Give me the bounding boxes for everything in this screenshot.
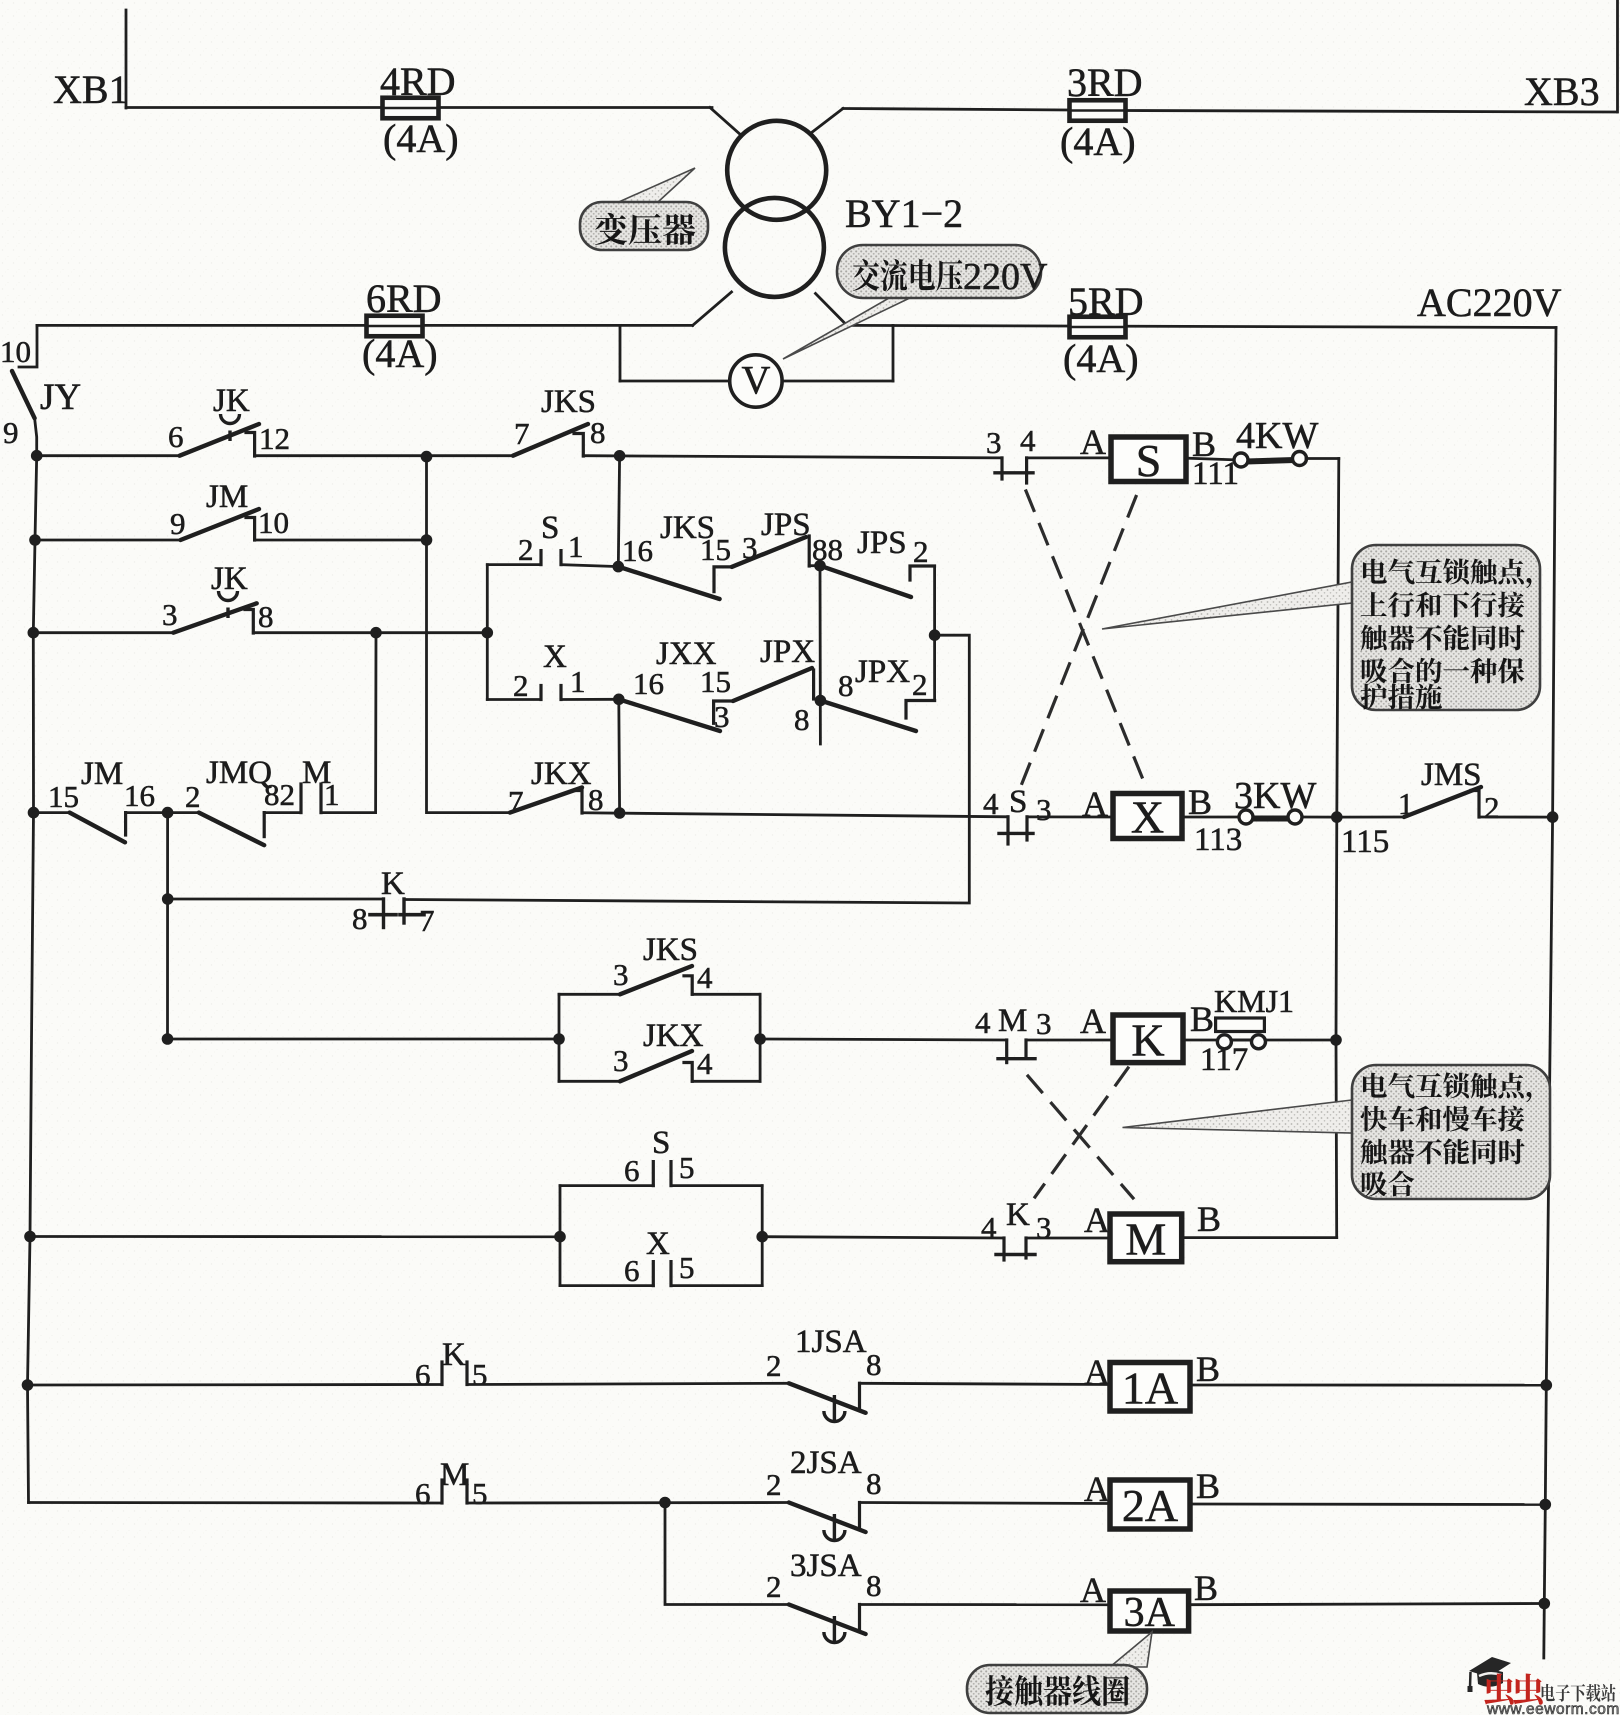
- switch JK (6-12) blade: [180, 424, 259, 456]
- wire: top-right stub at XB3: [1616, 0, 1619, 112]
- svg-text:1: 1: [568, 529, 584, 564]
- contact JK fixed tick: [246, 433, 255, 457]
- contact K (8-7) bridging plates: [370, 899, 424, 928]
- logo graduation cap: [1468, 1657, 1512, 1692]
- interlock dashed line S-to-X (down-right): [1026, 491, 1142, 777]
- contact M (6-5) ticks row 2A: [440, 1480, 443, 1503]
- node: row1 / S-branch drop junction: [614, 450, 626, 462]
- svg-text:3JSA: 3JSA: [790, 1548, 862, 1584]
- svg-text:3A: 3A: [1124, 1590, 1176, 1636]
- fuse 5RD: [1070, 317, 1126, 338]
- coil 3A: [1110, 1590, 1189, 1636]
- svg-text:82: 82: [264, 777, 295, 812]
- wire: 2JSA to coil 2A: [860, 1503, 1111, 1504]
- wire: top line transformer to XB3: [843, 109, 1069, 111]
- logo text 电子下载站: [1542, 1684, 1616, 1702]
- svg-text:6: 6: [624, 1253, 640, 1288]
- contact X (2-1) ticks: [539, 686, 542, 700]
- wire: S branch to JKS: [561, 565, 618, 567]
- wire: S 6-5 branch right: [671, 1184, 762, 1187]
- svg-text:2A: 2A: [1122, 1480, 1178, 1531]
- contact S (6-5) ticks: [652, 1162, 655, 1186]
- wire: JKS/JKX block left bracket: [558, 994, 561, 1081]
- node: rail junction row 1: [31, 450, 43, 462]
- contact JMS fixed tick: [1471, 791, 1479, 818]
- limit switch 3KW: [1239, 810, 1302, 824]
- switch JXX (16-15) blade: [619, 699, 720, 731]
- svg-text:K: K: [381, 866, 405, 902]
- svg-text:JKX: JKX: [531, 756, 592, 792]
- svg-text:B: B: [1196, 1466, 1220, 1506]
- svg-text:X: X: [1131, 792, 1164, 843]
- coil 2A: [1110, 1480, 1190, 1531]
- wire: S 6-5 branch left: [560, 1184, 653, 1187]
- logo 虫 first: [1484, 1674, 1513, 1705]
- wire: voltmeter branch left drop: [619, 325, 622, 381]
- svg-text:7: 7: [514, 416, 530, 451]
- contact M (82-1) ticks: [299, 784, 302, 813]
- wire: diagonal into transformer primary left: [710, 108, 742, 137]
- node: right rail / 2A row: [1540, 1499, 1552, 1511]
- svg-text:111: 111: [1192, 456, 1239, 492]
- svg-text:JM: JM: [81, 756, 123, 792]
- svg-text:8: 8: [866, 1466, 882, 1501]
- callout pointer wedge: interlock note 2: [1123, 1100, 1353, 1133]
- callout1 line2 上行和下行接: [1361, 592, 1524, 618]
- svg-text:S: S: [1136, 435, 1162, 486]
- svg-text:6: 6: [415, 1476, 431, 1511]
- wire: JMQ to M contact: [264, 811, 301, 814]
- callout2 line2 快车和慢车接: [1361, 1106, 1525, 1132]
- svg-text:15: 15: [700, 664, 731, 699]
- wire: contact to coil M: [1026, 1237, 1110, 1240]
- contact JKS fixed tick mid: [714, 567, 732, 592]
- switch JM (9-10) blade: [181, 509, 260, 540]
- wire: diagonal from transformer primary right: [811, 109, 843, 134]
- wire: S/X block left bracket: [559, 1186, 562, 1286]
- svg-text:B: B: [1194, 1568, 1218, 1608]
- svg-text:16: 16: [622, 533, 653, 568]
- callout1 line3 触器不能同时: [1361, 624, 1525, 650]
- svg-text:1A: 1A: [1122, 1362, 1178, 1413]
- svg-text:3: 3: [613, 1043, 629, 1078]
- callout text 变压器 (transformer): [595, 213, 695, 245]
- wire: row1 JK to JKS: [255, 454, 513, 457]
- svg-text:1: 1: [570, 664, 586, 699]
- node: rail junction JM row: [28, 807, 40, 819]
- wire: S/X block left bracket: [486, 565, 489, 700]
- node: JM row / vertical-167 junction: [162, 807, 174, 819]
- svg-text:3: 3: [1036, 1006, 1052, 1041]
- svg-text:10: 10: [258, 505, 289, 540]
- wire: JKS block top branch right: [692, 993, 760, 996]
- contact JMQ fixed tick: [263, 813, 266, 837]
- callout pointer wedge: interlock note 1: [1102, 582, 1352, 629]
- node: rail junction 1A row: [22, 1379, 34, 1391]
- svg-text:JPS: JPS: [857, 525, 907, 561]
- switch JMQ (2-82) blade: [199, 813, 264, 846]
- callout box: transformer label 变压器: [580, 202, 708, 250]
- wire: JKX block bottom branch left: [559, 1080, 620, 1083]
- svg-text:KMJ1: KMJ1: [1214, 983, 1294, 1019]
- wire: M contact to 2JSA: [467, 1501, 789, 1504]
- switch JPS blade rising: [732, 537, 806, 567]
- svg-text:X: X: [646, 1226, 670, 1262]
- wire: JKS block top branch left: [559, 993, 620, 996]
- wire: rejoin to K-row drop corner: [404, 635, 969, 903]
- svg-text:4: 4: [981, 1210, 997, 1245]
- switch JY blade: [12, 371, 35, 418]
- node: block right junction: [754, 1033, 766, 1045]
- contact S (2-1) ticks: [539, 551, 542, 565]
- coil K (fast contactor): [1113, 1014, 1183, 1065]
- svg-text:12: 12: [259, 421, 290, 456]
- svg-text:7: 7: [419, 903, 435, 938]
- wire: JKX block bottom branch right: [692, 1080, 760, 1083]
- switch JPS second blade: [820, 566, 911, 597]
- switch JKS (7-8) blade row1: [513, 424, 588, 456]
- svg-text:www.eeworm.com: www.eeworm.com: [1486, 1701, 1620, 1715]
- wire: JPS stub to junction: [809, 564, 820, 567]
- wire: 2A row rail corner to M contact: [29, 1501, 443, 1504]
- wire: coil K to KMJ1: [1183, 1039, 1217, 1042]
- interlock dashed line K-to-M (down-right): [1028, 1076, 1133, 1198]
- svg-text:5: 5: [679, 1250, 695, 1285]
- wire: 1JSA to coil 1A: [860, 1383, 1111, 1384]
- svg-text:(4A): (4A): [1063, 336, 1139, 381]
- wire: JMS to right rail: [1479, 816, 1553, 819]
- wire: voltmeter branch right horizontal: [782, 380, 893, 383]
- switch JPX second blade: [820, 701, 916, 732]
- 3.4: [808, 536, 811, 566]
- svg-text:4: 4: [697, 1046, 713, 1081]
- voltmeter V: [730, 355, 782, 407]
- svg-text:6: 6: [415, 1357, 431, 1392]
- wire: row3 rail to JK: [33, 631, 173, 634]
- svg-text:A: A: [1080, 422, 1106, 462]
- switch JK (3-8) blade row3: [173, 603, 256, 632]
- contact X (6-5) ticks: [652, 1262, 655, 1286]
- wire: junction 115 to JMS: [1337, 816, 1404, 819]
- svg-text:B: B: [1197, 1199, 1221, 1239]
- wire: coil S to 4KW: [1186, 458, 1235, 460]
- node: rail junction row 2: [29, 534, 41, 546]
- svg-text:JKS: JKS: [541, 384, 596, 420]
- wire: link 88 junction down to JPX junction: [819, 566, 822, 744]
- callout pointer wedge: contactor coil note: [1110, 1632, 1152, 1667]
- wire: row1 rail to JK: [37, 454, 180, 457]
- contact 4-K-3 plates: [1002, 1238, 1005, 1260]
- svg-text:(4A): (4A): [1060, 119, 1136, 164]
- svg-text:(4A): (4A): [383, 116, 459, 161]
- mechanical fork of JK row3: [219, 591, 238, 618]
- wire: row3 to S/X block bracket: [253, 631, 487, 634]
- svg-text:M: M: [440, 1457, 469, 1493]
- svg-text:JM: JM: [206, 479, 248, 515]
- svg-text:3: 3: [986, 425, 1002, 460]
- node: S branch / row1 drop: [613, 561, 625, 573]
- contact JKS fixed tick row1: [574, 434, 583, 457]
- svg-text:B: B: [1196, 1349, 1220, 1389]
- switch JKS (16-15) blade mid: [618, 567, 719, 599]
- switch 1JSA blade: [789, 1383, 866, 1413]
- contact JKX fixed tick block: [684, 1063, 692, 1082]
- svg-text:XB3: XB3: [1524, 69, 1600, 114]
- wire: row1 JKS to S-coil contact: [583, 456, 1002, 458]
- svg-text:115: 115: [1341, 824, 1389, 860]
- switch JMS (1-2) blade: [1404, 787, 1481, 817]
- contact 1JSA fixed tick: [858, 1383, 861, 1408]
- node: SX block left junction: [554, 1231, 566, 1243]
- wire: contact 3 to coil X: [1027, 816, 1113, 819]
- svg-text:3KW: 3KW: [1234, 775, 1316, 817]
- node: row2 end junction: [421, 534, 433, 546]
- svg-text:4: 4: [697, 960, 713, 995]
- node: vertical-167 / block row junction: [162, 1033, 174, 1045]
- interlock dashed line M-to-K (down-left): [1035, 1068, 1128, 1197]
- wire: AC220V line left section: [37, 324, 693, 327]
- wire: block to K coil contact: [760, 1039, 1007, 1040]
- wire: top line XB1 to transformer: [126, 106, 712, 109]
- svg-text:8: 8: [794, 702, 810, 737]
- svg-text:2: 2: [766, 1467, 782, 1502]
- callout box: AC voltage 交流电压220V: [837, 245, 1041, 298]
- callout box: interlock note 2: [1352, 1065, 1550, 1199]
- wire: 4KW to right drop: [1306, 457, 1339, 460]
- mechanical fork of JK: [221, 414, 240, 441]
- wire: diagonal from transformer secondary right to AC line: [816, 294, 847, 326]
- svg-text:16: 16: [124, 778, 155, 813]
- contact JPS-2 bracket: [910, 566, 935, 580]
- node: right rail / X row: [1547, 811, 1559, 823]
- contact 2JSA fixed tick: [858, 1503, 861, 1528]
- wire: S/X row rail to block: [30, 1235, 560, 1238]
- svg-text:JKX: JKX: [643, 1018, 704, 1054]
- svg-text:2JSA: 2JSA: [790, 1445, 862, 1481]
- svg-text:9: 9: [3, 415, 19, 450]
- callout2 line3 触器不能同时: [1361, 1138, 1525, 1164]
- svg-text:(4A): (4A): [362, 331, 438, 376]
- svg-text:XB1: XB1: [53, 67, 129, 112]
- node: 2A row / 3A drop junction: [659, 1497, 671, 1509]
- svg-text:8: 8: [866, 1568, 882, 1603]
- svg-text:JK: JK: [213, 383, 250, 419]
- svg-text:JMQ: JMQ: [206, 755, 272, 791]
- svg-text:3: 3: [1036, 792, 1052, 827]
- contact JK fixed tick row3: [245, 610, 253, 634]
- svg-text:5RD: 5RD: [1068, 279, 1144, 324]
- wire: X branch left segment: [487, 698, 541, 701]
- contact 3JSA fixed tick: [858, 1605, 861, 1630]
- node: row3 / S-X bracket junction: [482, 627, 494, 639]
- wire: vertical x=167 JM row to JKS/JKX block row: [166, 813, 169, 1039]
- contact JM fixed tick row813: [124, 813, 127, 835]
- svg-text:S: S: [1009, 784, 1027, 820]
- wire: X 6-5 branch right: [671, 1284, 762, 1287]
- wire: S branch left segment: [487, 563, 541, 566]
- callout1 line1 电气互锁触点: [1363, 558, 1531, 588]
- wire: coil M to vertical bus corner: [1182, 1236, 1337, 1239]
- svg-text:8: 8: [590, 415, 606, 450]
- wire: vertical drop X branch to JKX row: [617, 699, 621, 813]
- wire: top-left entry stub at XB1: [125, 10, 128, 108]
- wire: JM row rail to blade: [34, 811, 70, 814]
- wire: coil 2A to right rail: [1190, 1503, 1545, 1506]
- callout2 line4 吸合: [1362, 1171, 1414, 1197]
- wire: voltmeter branch right rise: [892, 325, 895, 381]
- svg-text:3: 3: [162, 597, 178, 632]
- 3.4: [812, 670, 815, 699]
- svg-text:6: 6: [168, 419, 184, 454]
- wire: 3KW to junction 115: [1302, 816, 1337, 819]
- svg-text:15: 15: [48, 779, 79, 814]
- wire: X branch to JXX: [561, 698, 619, 701]
- callout text 交流电压 (AC voltage): [853, 259, 963, 291]
- node: right rail / 3A row: [1539, 1598, 1551, 1610]
- svg-text:2: 2: [185, 779, 201, 814]
- svg-text:10: 10: [0, 334, 31, 369]
- switch JM (15-16) blade: [70, 813, 125, 843]
- svg-text:3RD: 3RD: [1067, 60, 1143, 105]
- svg-text:5: 5: [472, 1357, 488, 1392]
- switch JKX (7-8) blade row813: [510, 788, 582, 813]
- svg-text:JK: JK: [211, 561, 248, 597]
- contact 4-S-3 plates: [1006, 817, 1009, 844]
- svg-text:3: 3: [1036, 1210, 1052, 1245]
- svg-text:AC220V: AC220V: [1417, 280, 1562, 325]
- wire: top line to right corner: [1125, 111, 1617, 113]
- svg-text:3: 3: [613, 957, 629, 992]
- svg-text:1JSA: 1JSA: [795, 1324, 867, 1360]
- svg-text:5: 5: [472, 1476, 488, 1511]
- wire: S/X block right bracket: [761, 1186, 764, 1286]
- wire: block right bracket: [759, 994, 762, 1081]
- wire: SX block to M coil contact: [762, 1237, 1004, 1238]
- contact 4-M-3 plates: [1005, 1040, 1008, 1063]
- wire: vertical x=426 from row1 to JKX row: [427, 457, 511, 813]
- wire: K contact to 1JSA: [467, 1383, 789, 1384]
- switch JKS (3-4) blade block: [620, 966, 692, 994]
- svg-text:6RD: 6RD: [366, 276, 442, 321]
- wire: 1A row rail to K contact: [28, 1383, 443, 1386]
- node: row1 / vertical-426 junction: [421, 451, 433, 463]
- wire: diagonal from AC line to transformer secondary left: [693, 292, 732, 325]
- svg-text:4RD: 4RD: [380, 59, 456, 104]
- svg-text:A: A: [1080, 1001, 1106, 1041]
- svg-text:JMS: JMS: [1421, 757, 1482, 793]
- switch JKX (3-4) blade block: [620, 1051, 692, 1081]
- svg-text:3: 3: [714, 699, 730, 734]
- wire: vertical x=376 down to M contact row: [321, 633, 376, 813]
- wire: vertical drop row1 to S branch: [618, 456, 619, 567]
- wire: contact to coil K: [1026, 1039, 1113, 1042]
- limit switch 4KW: [1234, 452, 1307, 468]
- fuse 4RD: [383, 98, 439, 119]
- svg-text:2: 2: [766, 1569, 782, 1604]
- svg-text:X: X: [543, 639, 567, 675]
- contact 3-4 (S interlock) plates: [1000, 458, 1003, 479]
- contact JXX fixed tick: [714, 701, 733, 723]
- svg-text:5: 5: [679, 1150, 695, 1185]
- svg-text:K: K: [442, 1337, 466, 1373]
- svg-text:S: S: [652, 1125, 670, 1161]
- callout pointer: AC voltage label wedge: [783, 295, 916, 359]
- svg-text:A: A: [1084, 1352, 1110, 1392]
- coil 1A: [1110, 1362, 1190, 1413]
- svg-text:8: 8: [866, 1347, 882, 1382]
- node: rail junction S/X row: [24, 1231, 36, 1243]
- left rail (vertical bus): [28, 456, 37, 1503]
- node: X branch / JKX-row drop: [613, 694, 625, 706]
- manual operator of 3JSA: [824, 1616, 845, 1644]
- wire: S/X rejoin right vertical lower: [933, 635, 936, 700]
- coil X (down contactor): [1113, 792, 1182, 843]
- svg-text:15: 15: [700, 532, 731, 567]
- contact JKX fixed tick row813: [574, 791, 582, 814]
- wire: block row left segment: [168, 1038, 560, 1041]
- svg-text:A: A: [1082, 784, 1108, 824]
- svg-text:K: K: [1006, 1197, 1030, 1233]
- svg-text:A: A: [1084, 1200, 1110, 1240]
- callout1 line5 护措施: [1361, 683, 1442, 709]
- node 115 junction: [1331, 811, 1343, 823]
- wire: coil 3A to right rail: [1189, 1604, 1545, 1605]
- contact K (6-5) ticks row 1A: [440, 1362, 443, 1385]
- coil M (slow contactor): [1110, 1213, 1182, 1264]
- svg-text:4: 4: [1020, 423, 1036, 458]
- callout text 接触器线圈 (contactor coils): [986, 1675, 1129, 1706]
- interlock dashed line X-to-S (down-left): [1022, 497, 1136, 784]
- node: K row junction: [162, 893, 174, 905]
- svg-text:2: 2: [913, 534, 929, 569]
- interlock KMJ1 (mechanical latch): [1216, 1018, 1266, 1049]
- svg-text:2: 2: [1484, 790, 1500, 825]
- manual operator of 1JSA: [824, 1395, 845, 1423]
- node: SX block right junction: [756, 1231, 768, 1243]
- wire: left rail corner from AC line: [19, 325, 37, 367]
- svg-text:4: 4: [975, 1005, 991, 1040]
- wire: voltmeter branch left horizontal: [620, 380, 730, 383]
- svg-text:2: 2: [766, 1348, 782, 1383]
- wire: 3JSA to coil 3A: [860, 1603, 1111, 1606]
- svg-text:88: 88: [812, 532, 843, 567]
- svg-text:JKS: JKS: [643, 932, 698, 968]
- svg-text:4KW: 4KW: [1236, 415, 1318, 457]
- contact JKS fixed tick block: [684, 976, 692, 995]
- manual operator of 2JSA: [824, 1514, 845, 1542]
- fuse 3RD: [1070, 100, 1126, 121]
- svg-text:9: 9: [170, 506, 186, 541]
- transformer BY1-2 secondary winding circle: [725, 198, 824, 297]
- switch 2JSA blade: [789, 1503, 866, 1533]
- svg-text:M: M: [998, 1003, 1027, 1039]
- svg-text:8: 8: [838, 668, 854, 703]
- svg-text:JY: JY: [40, 377, 81, 418]
- node: block left junction: [553, 1033, 565, 1045]
- coil S (up contactor): [1111, 435, 1186, 486]
- contact JPX-2 bracket: [906, 701, 935, 719]
- svg-text:8: 8: [258, 599, 274, 634]
- node: JPS 88 junction: [814, 560, 826, 572]
- svg-text:BY1−2: BY1−2: [845, 191, 963, 236]
- svg-text:JPX: JPX: [760, 634, 815, 670]
- callout pointer: transformer label wedge: [612, 168, 695, 213]
- right rail (vertical bus): [1544, 328, 1556, 1659]
- node: row3 / vertical-376 junction: [370, 627, 382, 639]
- wire: vertical bus x=1337 (S/X/K column): [1336, 459, 1339, 1238]
- node: S/X branches rejoin: [929, 629, 941, 641]
- wire: JKX row to X coil row: [582, 813, 1008, 817]
